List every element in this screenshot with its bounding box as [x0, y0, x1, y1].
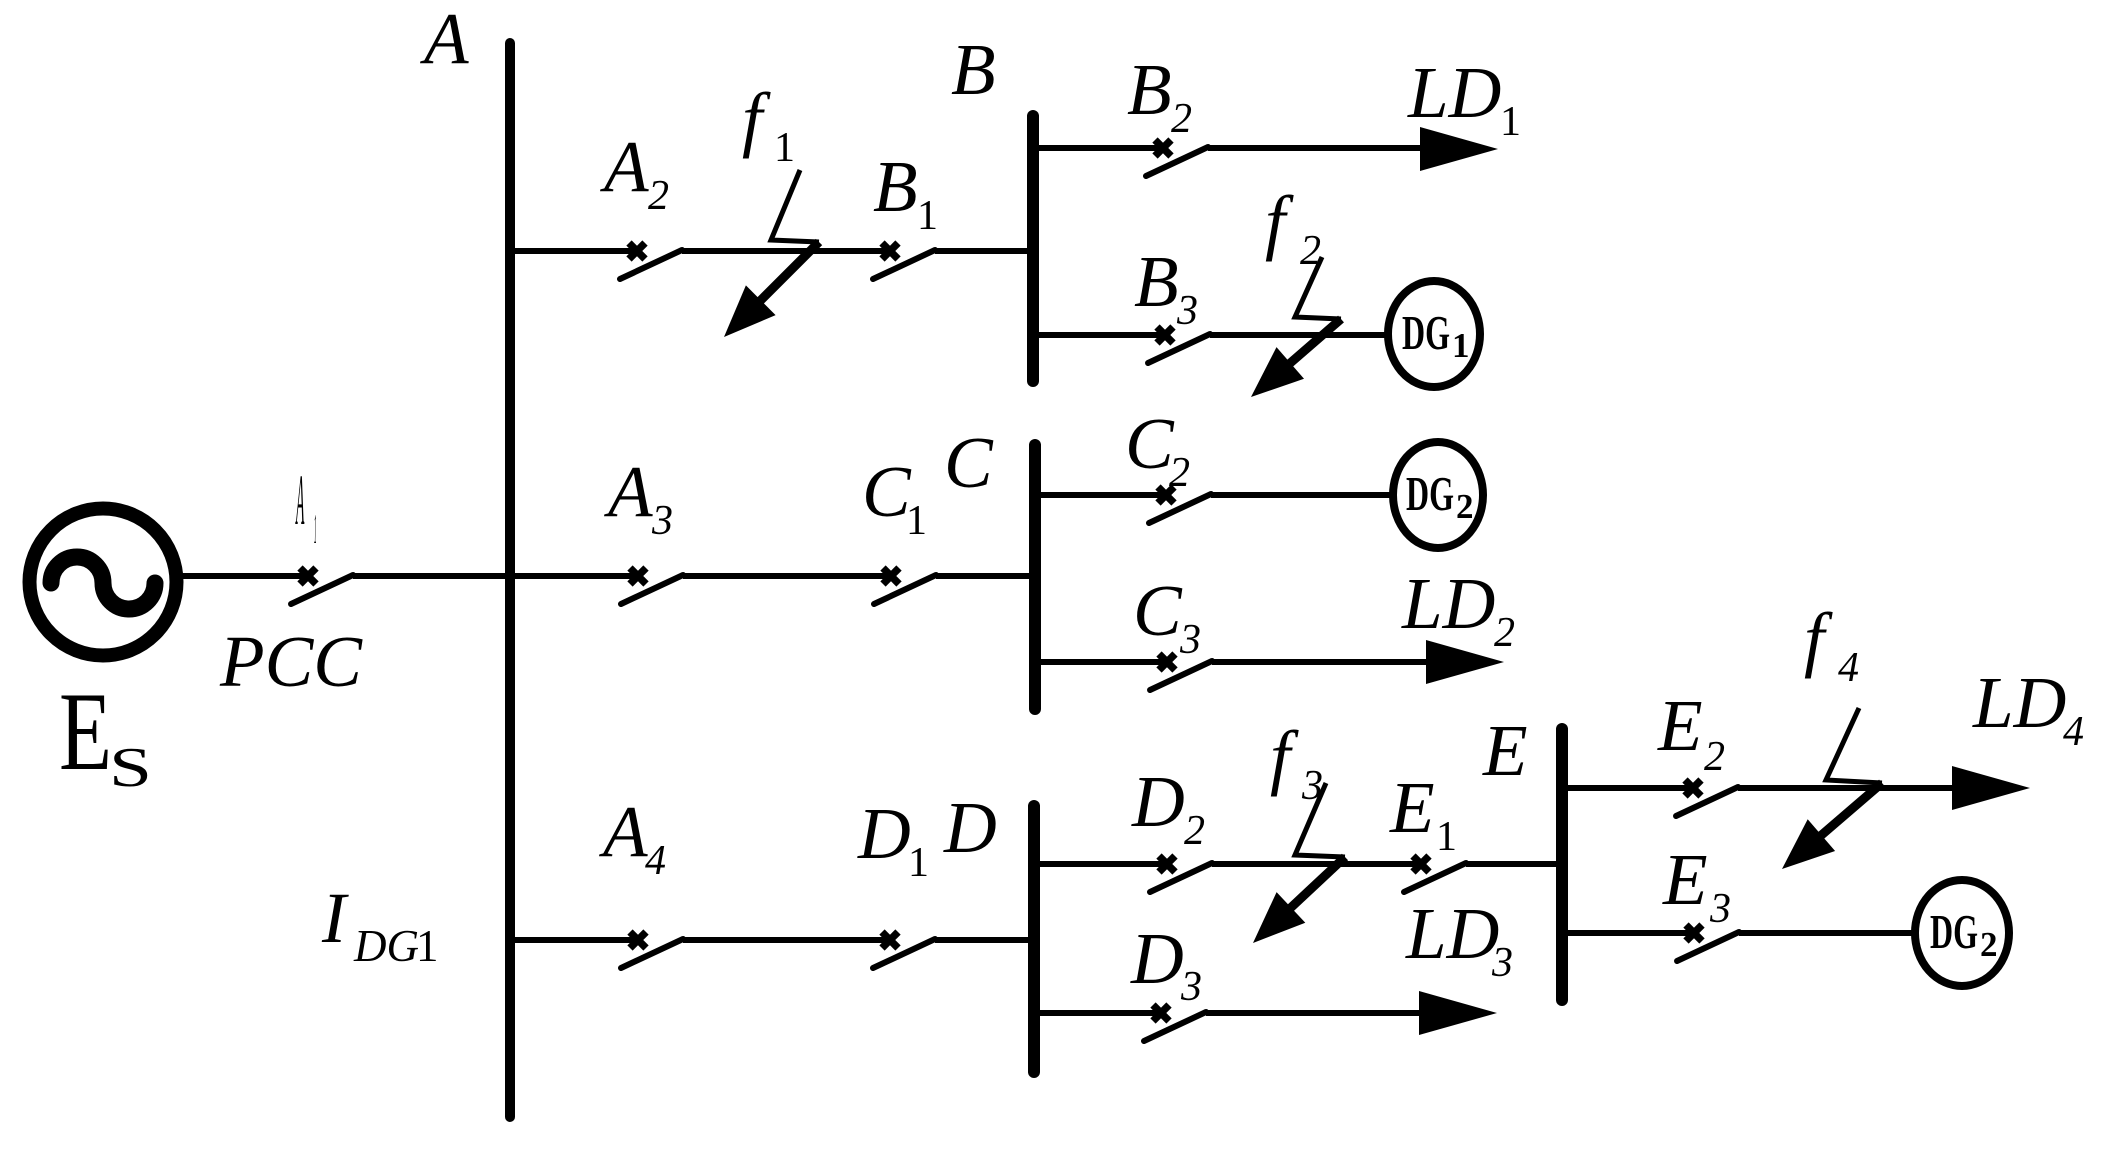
svg-text:3: 3	[1179, 617, 1201, 663]
svg-text:4: 4	[2063, 709, 2084, 755]
svg-text:DG: DG	[1930, 904, 1978, 959]
label E3	[1662, 839, 1731, 932]
svg-text:A: A	[604, 451, 653, 532]
wire D3 to LD3 arrow	[1206, 1010, 1440, 1016]
label I_DG1	[321, 878, 439, 971]
wire Es to breaker A1	[181, 573, 308, 579]
bus E	[1556, 729, 1568, 1000]
breaker E2	[1676, 780, 1738, 816]
svg-text:DG: DG	[1406, 466, 1454, 521]
svg-text:DG: DG	[1402, 305, 1450, 360]
bus C	[1029, 445, 1041, 709]
wire bus C to breaker C3	[1035, 659, 1167, 665]
svg-text:1: 1	[908, 840, 929, 886]
breaker E3	[1677, 925, 1739, 961]
svg-text:A: A	[599, 791, 648, 872]
wire bus D to breaker D2	[1034, 861, 1167, 867]
bus A	[505, 43, 515, 1117]
svg-text:S: S	[109, 737, 152, 799]
DG source DG1	[1388, 281, 1480, 387]
label D3	[1130, 918, 1202, 1010]
svg-text:C: C	[1125, 403, 1175, 484]
label C2	[1125, 403, 1190, 496]
svg-text:2: 2	[1980, 925, 1998, 964]
svg-text:1: 1	[1452, 326, 1470, 365]
svg-text:3: 3	[1491, 940, 1513, 986]
load arrow LD1	[1420, 127, 1498, 171]
bus D	[1028, 806, 1040, 1072]
wire E3 to DG2b	[1739, 930, 1917, 936]
svg-text:1: 1	[917, 193, 938, 239]
breaker B3	[1148, 327, 1210, 363]
svg-text:E: E	[1657, 685, 1703, 766]
label LD4	[1972, 662, 2084, 755]
svg-text:4: 4	[1838, 645, 1859, 691]
svg-text:2: 2	[1300, 228, 1321, 274]
label A4	[599, 791, 666, 884]
svg-text:C: C	[944, 422, 994, 503]
wire bus B to breaker B2	[1033, 145, 1163, 151]
svg-text:A: A	[420, 0, 469, 79]
wire bus D to breaker D3	[1034, 1010, 1161, 1016]
svg-text:2: 2	[1184, 808, 1205, 854]
label A2	[600, 126, 669, 219]
svg-text:I: I	[321, 878, 349, 958]
label A1 (compressed)	[295, 461, 304, 540]
breaker C1	[874, 568, 936, 604]
svg-text:B: B	[1127, 49, 1172, 130]
svg-text:DG: DG	[353, 921, 419, 971]
label f1	[742, 78, 795, 171]
wire B2 to LD1 arrow	[1208, 145, 1440, 151]
DG source DG2b	[1915, 880, 2009, 986]
wire bus A to breaker A4	[510, 937, 638, 943]
bus B	[1027, 116, 1039, 381]
label PCC	[219, 621, 363, 702]
label B3	[1134, 241, 1198, 334]
svg-text:B: B	[873, 146, 918, 227]
svg-text:1: 1	[906, 498, 927, 544]
breaker D2	[1150, 856, 1212, 892]
breaker B1	[873, 243, 935, 279]
label D2	[1131, 761, 1205, 854]
label C1	[862, 451, 927, 544]
breaker A4	[621, 932, 683, 968]
breaker C2	[1149, 487, 1211, 523]
wire C2 to DG2	[1211, 492, 1395, 498]
wire B3 to DG1	[1210, 332, 1390, 338]
fault bolt f3	[1253, 783, 1345, 943]
wire A4 to breaker D1	[683, 937, 890, 943]
svg-text:D: D	[1130, 918, 1184, 999]
svg-text:D: D	[1131, 761, 1185, 842]
DG source DG2a	[1393, 442, 1483, 548]
svg-text:PCC: PCC	[219, 621, 363, 702]
label E2	[1657, 685, 1725, 780]
svg-text:LD: LD	[1405, 893, 1499, 974]
AC source Es circle	[30, 509, 177, 656]
wire C1 to bus C	[936, 573, 1035, 579]
svg-text:3: 3	[651, 498, 673, 544]
wire C3 to LD2 arrow	[1212, 659, 1445, 665]
wire A1 to bus A	[353, 573, 510, 579]
svg-text:C: C	[1133, 570, 1183, 651]
wire bus A to breaker A2	[510, 248, 637, 254]
label B1	[873, 146, 938, 239]
wire bus C to breaker C2	[1035, 492, 1166, 498]
svg-text:E: E	[1389, 767, 1435, 848]
label f2	[1265, 181, 1321, 274]
label bus E	[1482, 710, 1528, 791]
label bus D	[943, 787, 997, 868]
label A3	[604, 451, 673, 544]
svg-text:A: A	[600, 126, 649, 207]
svg-text:1: 1	[314, 506, 317, 552]
svg-text:2: 2	[1494, 610, 1515, 656]
breaker A3	[621, 568, 683, 604]
label bus B	[951, 29, 996, 110]
wire bus E to breaker E3	[1562, 930, 1694, 936]
label LD3	[1405, 893, 1513, 986]
label f4	[1804, 598, 1859, 691]
wire B1 to bus B	[935, 248, 1033, 254]
fault bolt f1	[724, 170, 819, 337]
wire E2 to LD4 arrow	[1738, 785, 1970, 791]
breaker D3	[1144, 1005, 1206, 1041]
load arrow LD4	[1952, 766, 2030, 810]
svg-text:1: 1	[774, 125, 795, 171]
label D1	[857, 793, 929, 886]
svg-text:B: B	[1134, 241, 1179, 322]
breaker A2	[620, 243, 682, 279]
load arrow LD2	[1426, 640, 1504, 684]
svg-text:D: D	[943, 787, 997, 868]
wire A3 to breaker C1	[683, 573, 891, 579]
svg-text:E: E	[1482, 710, 1528, 791]
breaker C3	[1150, 654, 1212, 690]
svg-text:2: 2	[1171, 96, 1192, 142]
wire bus B to breaker B3	[1033, 332, 1165, 338]
label LD2	[1401, 563, 1515, 656]
label C3	[1133, 570, 1201, 663]
svg-text:B: B	[951, 29, 996, 110]
wire D2 to breaker E1	[1212, 861, 1421, 867]
svg-text:C: C	[862, 451, 912, 532]
fault bolt f2	[1251, 257, 1341, 397]
wire D1 to bus D	[935, 937, 1034, 943]
svg-text:LD: LD	[1401, 563, 1495, 644]
wire A2 to breaker B1	[682, 248, 890, 254]
svg-text:2: 2	[648, 173, 669, 219]
svg-text:2: 2	[1169, 450, 1190, 496]
svg-text:E: E	[59, 670, 112, 794]
label bus A	[420, 0, 469, 79]
breaker B2	[1146, 140, 1208, 176]
label Es	[59, 670, 152, 799]
svg-text:2: 2	[1704, 734, 1725, 780]
label E1	[1389, 767, 1457, 860]
svg-text:3: 3	[1709, 886, 1731, 932]
svg-text:D: D	[857, 793, 911, 874]
svg-text:2: 2	[1456, 487, 1474, 526]
svg-text:LD: LD	[1407, 52, 1501, 133]
svg-text:4: 4	[645, 838, 666, 884]
svg-text:E: E	[1662, 839, 1708, 920]
breaker A1	[291, 568, 353, 604]
svg-text:3: 3	[1176, 288, 1198, 334]
svg-text:1: 1	[1436, 814, 1457, 860]
svg-text:3: 3	[1180, 964, 1202, 1010]
svg-text:A: A	[295, 461, 304, 540]
label B2	[1127, 49, 1192, 142]
svg-text:1: 1	[1500, 99, 1521, 145]
svg-text:3: 3	[1301, 763, 1323, 809]
breaker E1	[1404, 856, 1466, 892]
wire bus E to breaker E2	[1562, 785, 1693, 791]
load arrow LD3	[1419, 991, 1497, 1035]
svg-text:LD: LD	[1972, 662, 2066, 743]
label LD1	[1407, 52, 1521, 145]
wire bus A to breaker A3	[510, 573, 638, 579]
wire E1 to bus E	[1466, 861, 1562, 867]
svg-text:1: 1	[416, 921, 439, 971]
label bus C	[944, 422, 994, 503]
breaker D1	[873, 932, 935, 968]
fault bolt f4	[1782, 708, 1882, 869]
label f3	[1270, 716, 1323, 809]
